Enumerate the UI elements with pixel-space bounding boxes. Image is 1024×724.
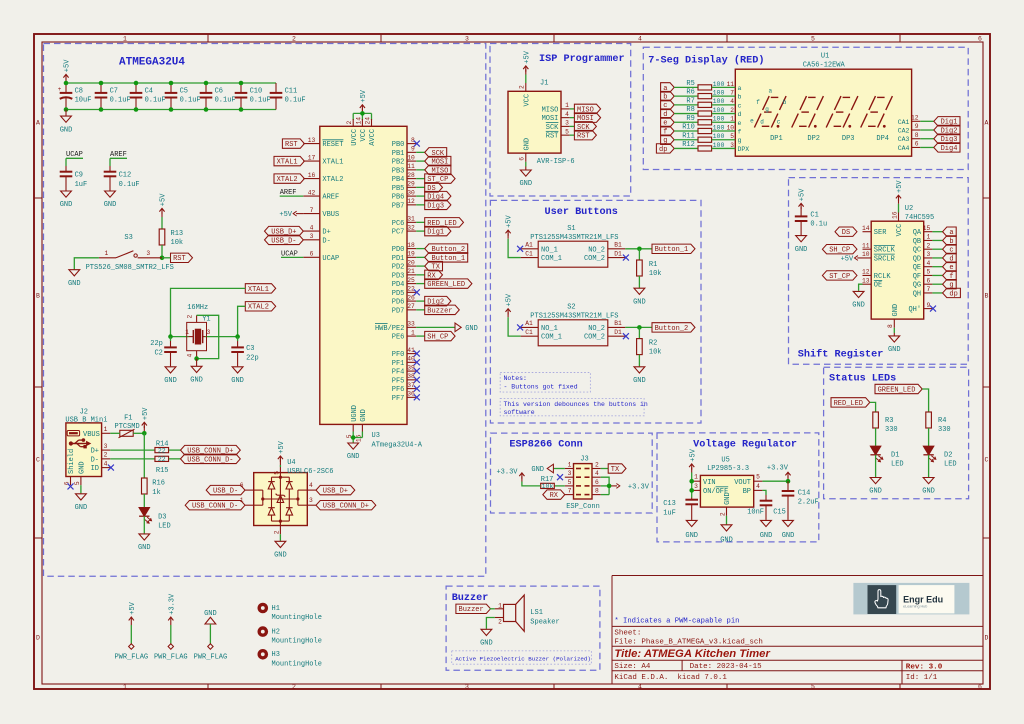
section box ISP Programmer bbox=[490, 44, 631, 197]
svg-text:PWR_FLAG: PWR_FLAG bbox=[194, 653, 228, 661]
svg-text:GND: GND bbox=[633, 298, 646, 306]
svg-text:DP2: DP2 bbox=[807, 135, 820, 143]
svg-text:+3.3V: +3.3V bbox=[628, 483, 650, 491]
svg-text:100: 100 bbox=[713, 124, 725, 131]
svg-text:USB_D-: USB_D- bbox=[213, 488, 238, 496]
svg-text:QA: QA bbox=[913, 229, 922, 237]
pin U4-1 / global label USB_CONN_D- bbox=[185, 497, 254, 511]
power symbol +5V (J1) bbox=[523, 50, 531, 74]
global label RST (at switch) bbox=[162, 253, 193, 263]
svg-text:R7: R7 bbox=[686, 97, 694, 105]
svg-text:LP2985-3.3: LP2985-3.3 bbox=[707, 465, 749, 473]
display U1 CA56-12EWA body bbox=[735, 53, 911, 157]
svg-text:22: 22 bbox=[158, 447, 166, 454]
pin PC6 bbox=[392, 216, 464, 228]
pin U4-4 / global label USB_D+ bbox=[307, 482, 355, 496]
power symbol +5V (R13) bbox=[159, 193, 167, 217]
svg-text:GND: GND bbox=[79, 461, 87, 474]
svg-text:B1: B1 bbox=[614, 320, 622, 327]
wire R16 to D3 bbox=[143, 494, 145, 508]
ground (U5) bbox=[720, 524, 733, 544]
svg-text:D3: D3 bbox=[158, 513, 166, 521]
svg-text:GND: GND bbox=[892, 304, 900, 317]
global label Buzzer (speaker) bbox=[456, 604, 491, 614]
ground (C15) bbox=[760, 520, 773, 540]
svg-text:UCAP: UCAP bbox=[281, 250, 298, 258]
pin PF4 bbox=[392, 364, 420, 376]
svg-text:e: e bbox=[750, 117, 754, 124]
svg-text:c: c bbox=[738, 102, 742, 109]
svg-text:+3.3V: +3.3V bbox=[496, 469, 518, 477]
svg-text:12: 12 bbox=[911, 115, 919, 122]
no-connect S1 COM_2 bbox=[623, 255, 629, 261]
USB trident icon bbox=[69, 438, 90, 448]
svg-text:USB_CONN_D-: USB_CONN_D- bbox=[192, 503, 238, 511]
svg-text:PTCSMD: PTCSMD bbox=[115, 423, 140, 431]
speaker LS1 bbox=[495, 595, 560, 631]
svg-text:PD0: PD0 bbox=[392, 246, 405, 254]
svg-text:PB3: PB3 bbox=[392, 167, 405, 175]
svg-text:4: 4 bbox=[927, 260, 931, 267]
pin PF5 bbox=[392, 373, 420, 385]
svg-text:29: 29 bbox=[407, 181, 415, 188]
svg-text:1uF: 1uF bbox=[663, 509, 676, 517]
svg-text:5: 5 bbox=[730, 133, 734, 140]
svg-text:0.1uF: 0.1uF bbox=[145, 97, 166, 105]
power symbol +5V (S1) bbox=[506, 214, 514, 238]
svg-text:MISO: MISO bbox=[542, 106, 559, 114]
pin PB6 bbox=[392, 189, 451, 201]
svg-text:XTAL1: XTAL1 bbox=[277, 159, 298, 167]
svg-text:+5V: +5V bbox=[506, 214, 514, 227]
wire R1 to GND bbox=[638, 276, 640, 288]
note box 2 bbox=[500, 398, 648, 416]
svg-text:GND: GND bbox=[138, 544, 151, 552]
svg-text:R11: R11 bbox=[682, 132, 695, 140]
svg-text:SER: SER bbox=[874, 229, 887, 237]
capacitor C10 bbox=[235, 83, 271, 110]
wire AREF to C12 bbox=[109, 158, 111, 166]
svg-text:CA1: CA1 bbox=[898, 119, 910, 126]
7-seg digit 2 bbox=[792, 96, 824, 143]
ground (U3) bbox=[347, 443, 360, 462]
svg-text:16: 16 bbox=[891, 211, 898, 219]
svg-text:HWB/PE2: HWB/PE2 bbox=[375, 325, 404, 333]
svg-text:AREF: AREF bbox=[322, 194, 339, 202]
svg-text:GND: GND bbox=[922, 488, 935, 496]
svg-text:Sheet:: Sheet: bbox=[614, 629, 641, 637]
svg-text:g: g bbox=[738, 137, 742, 144]
svg-text:7: 7 bbox=[730, 90, 734, 97]
node AREF (label) bbox=[110, 151, 127, 159]
svg-text:File: Phase_B_ATMEGA_v3.kicad_: File: Phase_B_ATMEGA_v3.kicad_sch bbox=[614, 639, 763, 647]
svg-text:PD7: PD7 bbox=[392, 307, 405, 315]
pin J3-8 bbox=[592, 488, 609, 495]
svg-text:6: 6 bbox=[310, 251, 314, 258]
diode D1 LED bbox=[870, 446, 903, 468]
svg-text:C: C bbox=[36, 456, 40, 463]
svg-text:Notes:: Notes: bbox=[504, 375, 527, 382]
svg-text:2: 2 bbox=[519, 85, 526, 89]
svg-text:R10: R10 bbox=[682, 124, 695, 132]
svg-text:R1: R1 bbox=[649, 261, 657, 269]
svg-text:SRCLK: SRCLK bbox=[874, 247, 896, 255]
svg-text:14: 14 bbox=[862, 225, 870, 232]
svg-text:1: 1 bbox=[568, 462, 572, 469]
svg-text:10: 10 bbox=[727, 124, 735, 131]
section box 7-Seg Display (RED) bbox=[643, 47, 968, 169]
svg-text:DP3: DP3 bbox=[842, 135, 855, 143]
wire +5V to S2 COM_1 bbox=[508, 317, 521, 336]
svg-text:PWR_FLAG: PWR_FLAG bbox=[154, 653, 188, 661]
svg-text:5: 5 bbox=[74, 481, 81, 485]
svg-text:5: 5 bbox=[568, 479, 572, 486]
svg-text:U5: U5 bbox=[721, 456, 729, 464]
resistor R12 / global label dp bbox=[656, 141, 749, 154]
svg-text:b: b bbox=[738, 94, 742, 101]
pin QE / global label e bbox=[913, 260, 957, 272]
svg-text:8: 8 bbox=[887, 324, 894, 328]
svg-text:22p: 22p bbox=[246, 355, 259, 363]
svg-text:R15: R15 bbox=[156, 467, 169, 475]
svg-text:PD6: PD6 bbox=[392, 299, 405, 307]
svg-text:PB1: PB1 bbox=[392, 150, 405, 158]
pin J1 MISO / global label MISO bbox=[542, 102, 601, 114]
svg-text:13: 13 bbox=[308, 137, 316, 144]
ground (R1) bbox=[633, 288, 646, 307]
pin RESET / global label RST bbox=[282, 137, 343, 149]
svg-text:+5V: +5V bbox=[160, 193, 168, 206]
power symbol +5V (U5) bbox=[689, 448, 697, 472]
pin SER / global label DS bbox=[835, 225, 887, 237]
svg-text:CA56-12EWA: CA56-12EWA bbox=[803, 62, 846, 70]
svg-text:GND: GND bbox=[360, 409, 368, 422]
svg-text:0.1uF: 0.1uF bbox=[215, 97, 236, 105]
svg-text:D1: D1 bbox=[614, 329, 622, 336]
svg-text:PF5: PF5 bbox=[392, 377, 405, 385]
wire R2 to GND bbox=[638, 355, 640, 367]
svg-text:J2: J2 bbox=[80, 409, 88, 417]
svg-text:100: 100 bbox=[713, 142, 725, 149]
svg-text:6: 6 bbox=[595, 479, 599, 486]
svg-text:21: 21 bbox=[407, 268, 415, 275]
pin XTAL1 bbox=[274, 154, 343, 166]
switch S3 bbox=[86, 234, 174, 272]
power flag +5V bbox=[114, 601, 148, 661]
section box Status LEDs bbox=[824, 367, 969, 499]
svg-text:3: 3 bbox=[730, 142, 734, 149]
svg-text:RCLK: RCLK bbox=[874, 273, 892, 281]
svg-text:0.1u: 0.1u bbox=[810, 221, 827, 229]
diode D3 LED bbox=[139, 508, 171, 531]
svg-text:VBUS: VBUS bbox=[83, 431, 100, 439]
svg-text:B: B bbox=[985, 292, 989, 299]
ground (C14) bbox=[782, 520, 795, 540]
ground (J2) bbox=[75, 493, 88, 512]
section box Buzzer bbox=[446, 586, 600, 670]
svg-text:16: 16 bbox=[308, 172, 316, 179]
wire cap bank bottom rail bbox=[66, 109, 276, 111]
svg-text:1: 1 bbox=[105, 250, 109, 257]
svg-text:0.1uF: 0.1uF bbox=[110, 97, 131, 105]
pin PB3 bbox=[392, 163, 451, 175]
svg-text:PD1: PD1 bbox=[392, 255, 405, 263]
svg-text:d: d bbox=[760, 119, 764, 126]
pin U2 GND bbox=[887, 304, 900, 333]
svg-text:3: 3 bbox=[207, 329, 211, 336]
pin U4-6 / global label USB_D- bbox=[206, 482, 254, 496]
pin PD5 bbox=[392, 286, 420, 298]
svg-text:GND: GND bbox=[523, 138, 531, 151]
wire cap bank top rail bbox=[66, 82, 276, 84]
svg-text:b: b bbox=[783, 99, 787, 106]
svg-text:32: 32 bbox=[407, 224, 415, 231]
svg-text:8: 8 bbox=[411, 137, 415, 144]
svg-text:USB_CONN_D+: USB_CONN_D+ bbox=[323, 503, 369, 511]
svg-text:4: 4 bbox=[309, 482, 313, 489]
svg-text:DP4: DP4 bbox=[876, 135, 889, 143]
svg-text:31: 31 bbox=[407, 216, 415, 223]
svg-text:14: 14 bbox=[355, 117, 362, 125]
svg-text:26: 26 bbox=[407, 294, 415, 301]
svg-text:0.1uF: 0.1uF bbox=[250, 97, 271, 105]
svg-text:GND: GND bbox=[465, 325, 478, 333]
svg-text:f: f bbox=[738, 129, 742, 136]
pin UCAP local label bbox=[281, 250, 339, 263]
svg-text:Buzzer: Buzzer bbox=[427, 307, 452, 315]
svg-text:4: 4 bbox=[638, 36, 642, 43]
capacitor C3 bbox=[231, 337, 258, 367]
junction crystal left bbox=[168, 334, 173, 339]
svg-text:6: 6 bbox=[978, 36, 982, 43]
svg-text:+3.3V: +3.3V bbox=[168, 593, 176, 615]
ground (LS1) bbox=[480, 629, 493, 648]
resistor R16 bbox=[142, 478, 165, 497]
pin D+ / global label USB_D+ bbox=[265, 224, 331, 236]
svg-text:D1: D1 bbox=[614, 250, 622, 257]
pin HWB/PE2 to GND bbox=[375, 321, 478, 333]
svg-text:- Buttons got fixed: - Buttons got fixed bbox=[504, 383, 578, 390]
wire U3 GND bbox=[353, 432, 362, 443]
svg-text:3: 3 bbox=[465, 684, 469, 691]
svg-text:9: 9 bbox=[927, 302, 931, 309]
resistor R9 / global label e bbox=[661, 115, 742, 128]
svg-text:CA4: CA4 bbox=[898, 145, 910, 152]
svg-text:H3: H3 bbox=[272, 651, 280, 659]
svg-text:A1: A1 bbox=[525, 242, 533, 249]
svg-text:5: 5 bbox=[811, 36, 815, 43]
pin ON/OFF bbox=[692, 483, 701, 491]
svg-text:OE: OE bbox=[874, 282, 882, 290]
mounting hole H2 bbox=[258, 626, 322, 645]
capacitor C5 bbox=[165, 83, 201, 110]
svg-text:RESET: RESET bbox=[322, 141, 343, 149]
svg-text:User Buttons: User Buttons bbox=[545, 207, 618, 218]
resistor R8 / global label d bbox=[661, 106, 742, 119]
svg-text:3: 3 bbox=[927, 251, 931, 258]
7-seg digit 1 bbox=[750, 87, 787, 143]
diode D2 LED bbox=[923, 446, 956, 468]
svg-text:R12: R12 bbox=[682, 141, 695, 149]
svg-text:GND: GND bbox=[888, 346, 901, 354]
svg-text:GND: GND bbox=[519, 180, 532, 188]
svg-text:VCC: VCC bbox=[523, 94, 531, 107]
svg-text:22p: 22p bbox=[150, 340, 163, 348]
svg-text:9: 9 bbox=[915, 123, 919, 130]
svg-text:28: 28 bbox=[407, 172, 415, 179]
ground (U2 OE) bbox=[852, 291, 865, 310]
pin J1 GND bbox=[519, 138, 532, 167]
pin QD / global label d bbox=[913, 251, 957, 263]
pin BP / capacitor C15 bbox=[747, 483, 786, 520]
title block bbox=[612, 576, 983, 685]
7-seg digit 4 bbox=[861, 96, 893, 143]
wire U3 VCC bracket bbox=[353, 113, 371, 120]
svg-text:C: C bbox=[985, 456, 989, 463]
pin CA2 / global label Dig2 bbox=[898, 123, 960, 135]
svg-text:2: 2 bbox=[927, 242, 931, 249]
svg-text:GND: GND bbox=[347, 453, 360, 461]
svg-text:PTS526_SM08_SMTR2_LFS: PTS526_SM08_SMTR2_LFS bbox=[86, 264, 174, 272]
svg-text:15: 15 bbox=[923, 225, 931, 232]
svg-text:+5V: +5V bbox=[279, 211, 292, 219]
junction U3 VCC bbox=[360, 111, 365, 116]
pin VOUT / power +3.3V bbox=[754, 464, 791, 481]
svg-text:C8: C8 bbox=[75, 87, 83, 95]
svg-text:* Indicates a PWM-capable pin: * Indicates a PWM-capable pin bbox=[614, 617, 739, 625]
wire UCAP to C9 bbox=[65, 158, 67, 166]
svg-text:11: 11 bbox=[407, 163, 415, 170]
svg-text:MOSI: MOSI bbox=[542, 115, 559, 123]
pin PF6 bbox=[392, 382, 420, 394]
svg-text:19: 19 bbox=[407, 251, 415, 258]
svg-text:QE: QE bbox=[913, 264, 921, 272]
pin J3-6 / power +3.3V bbox=[592, 479, 650, 492]
svg-text:100: 100 bbox=[713, 81, 725, 88]
svg-text:software: software bbox=[504, 409, 535, 416]
pin J3-3 no-connect bbox=[557, 470, 574, 480]
svg-text:10k: 10k bbox=[649, 349, 662, 357]
svg-text:Y1: Y1 bbox=[202, 316, 210, 324]
svg-text:C4: C4 bbox=[145, 87, 153, 95]
svg-text:4: 4 bbox=[187, 354, 194, 358]
op-amp U3 ATmega32U4-A body bbox=[320, 126, 423, 449]
ground (R2) bbox=[633, 366, 646, 385]
wire VBUS-F1-+5V bbox=[110, 432, 144, 434]
svg-text:GND: GND bbox=[104, 201, 117, 209]
svg-text:DP1: DP1 bbox=[770, 135, 783, 143]
svg-text:33: 33 bbox=[407, 321, 415, 328]
svg-text:MountingHole: MountingHole bbox=[272, 660, 322, 668]
svg-text:USB_B_Mini: USB_B_Mini bbox=[65, 417, 107, 425]
pin J3-7 / global label RX bbox=[543, 488, 574, 500]
svg-text:PB0: PB0 bbox=[392, 141, 405, 149]
svg-text:PC7: PC7 bbox=[392, 229, 405, 237]
svg-text:ATMEGA32U4: ATMEGA32U4 bbox=[119, 57, 185, 69]
svg-text:VIN: VIN bbox=[703, 479, 716, 487]
global label XTAL2 (crystal) bbox=[245, 302, 275, 312]
svg-text:330: 330 bbox=[885, 426, 898, 434]
svg-text:GND: GND bbox=[760, 532, 773, 540]
svg-text:TX: TX bbox=[611, 466, 620, 474]
svg-text:C14: C14 bbox=[798, 489, 811, 497]
svg-text:PF4: PF4 bbox=[392, 369, 405, 377]
svg-text:1: 1 bbox=[123, 684, 127, 691]
svg-text:USB_CONN_D-: USB_CONN_D- bbox=[187, 456, 233, 464]
svg-text:+5V: +5V bbox=[799, 188, 807, 201]
svg-text:D: D bbox=[985, 634, 989, 641]
junction VOUT bbox=[786, 479, 791, 484]
svg-text:+5V: +5V bbox=[689, 448, 697, 461]
capacitor C8 bbox=[58, 83, 92, 110]
svg-text:2: 2 bbox=[104, 452, 108, 459]
pin U2 VCC bbox=[891, 204, 904, 237]
svg-text:+5V: +5V bbox=[896, 180, 904, 193]
svg-text:VCC: VCC bbox=[360, 129, 368, 142]
resistor R14 bbox=[110, 440, 180, 454]
svg-text:2: 2 bbox=[292, 684, 296, 691]
svg-text:PC6: PC6 bbox=[392, 220, 405, 228]
svg-text:6: 6 bbox=[978, 684, 982, 691]
svg-text:+5V: +5V bbox=[360, 89, 368, 102]
svg-text:R2: R2 bbox=[649, 339, 657, 347]
pin PB7 bbox=[392, 198, 451, 210]
ground (C1) bbox=[795, 235, 808, 254]
svg-text:RX: RX bbox=[550, 492, 559, 500]
svg-text:GND: GND bbox=[68, 280, 81, 288]
pin QA / global label a bbox=[913, 225, 957, 237]
svg-text:11: 11 bbox=[727, 81, 735, 88]
svg-text:37: 37 bbox=[407, 382, 415, 389]
svg-text:100: 100 bbox=[713, 133, 725, 140]
svg-text:20: 20 bbox=[407, 259, 415, 266]
svg-text:10k: 10k bbox=[542, 483, 554, 490]
capacitor C1 bbox=[795, 188, 827, 235]
global label USB_CONN_D- bbox=[181, 454, 241, 464]
capacitor C12 bbox=[104, 166, 140, 191]
svg-text:GND: GND bbox=[75, 504, 88, 512]
switch S1 body bbox=[521, 225, 626, 267]
svg-text:XTAL1: XTAL1 bbox=[322, 159, 343, 167]
svg-text:R17: R17 bbox=[541, 476, 554, 484]
svg-text:QD: QD bbox=[913, 255, 921, 263]
svg-text:NO_1: NO_1 bbox=[541, 325, 558, 333]
pin PF7 bbox=[392, 391, 420, 403]
pin GND (J2) bbox=[74, 461, 87, 493]
svg-text:0.1uF: 0.1uF bbox=[285, 97, 306, 105]
svg-text:3: 3 bbox=[104, 443, 108, 450]
resistor R3 bbox=[873, 412, 898, 434]
pin J1 MOSI / global label MOSI bbox=[542, 111, 601, 123]
svg-text:4: 4 bbox=[104, 461, 108, 468]
svg-text:XTAL2: XTAL2 bbox=[248, 304, 269, 312]
svg-text:8: 8 bbox=[915, 132, 919, 139]
svg-text:ESP_Conn: ESP_Conn bbox=[566, 503, 600, 511]
svg-text:GND: GND bbox=[685, 532, 698, 540]
svg-text:GND: GND bbox=[633, 377, 646, 385]
pin J3-2 / global label TX bbox=[592, 462, 626, 474]
svg-text:e: e bbox=[738, 120, 742, 127]
wire S1 NO_2 to label bbox=[625, 248, 652, 250]
svg-text:c: c bbox=[777, 118, 781, 125]
svg-text:2: 2 bbox=[187, 315, 194, 319]
svg-text:AVCC: AVCC bbox=[369, 129, 377, 146]
junction ON/OFF bbox=[689, 488, 694, 493]
wire crystal case to GND loop bbox=[197, 315, 219, 358]
svg-text:dp: dp bbox=[659, 146, 667, 154]
svg-text:J1: J1 bbox=[540, 80, 548, 88]
svg-text:C10: C10 bbox=[250, 87, 263, 95]
